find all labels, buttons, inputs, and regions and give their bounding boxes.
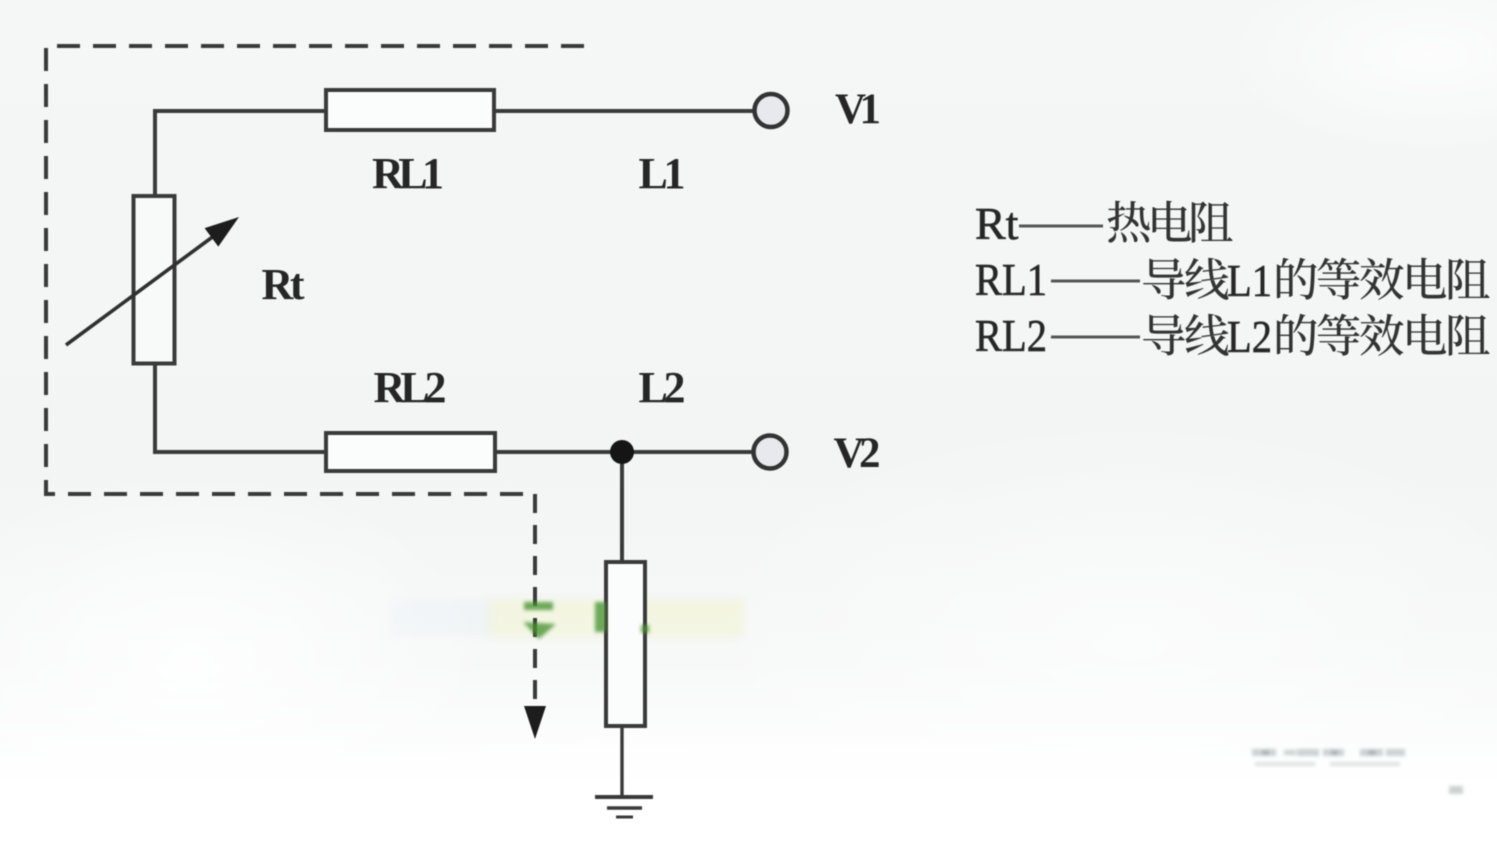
legend row 3: RL2 - wire L2 equivalent resistance — [975, 310, 1490, 362]
thermistor arrow head — [205, 217, 239, 247]
thermistor arrow shaft — [66, 227, 226, 345]
terminal V1 — [755, 94, 788, 127]
svg-text:RL2: RL2 — [975, 310, 1047, 361]
thermistor Rt body — [134, 196, 175, 364]
green annotation marks — [523, 602, 649, 639]
resistor RL1 — [326, 90, 494, 130]
dashed sensor enclosure box — [46, 46, 584, 494]
svg-text:L1: L1 — [1227, 255, 1272, 306]
svg-text:L1: L1 — [639, 149, 686, 198]
highlighter band annotation — [488, 599, 744, 637]
svg-text:Rt: Rt — [975, 198, 1019, 249]
dashed arrow line down — [533, 494, 537, 708]
wire RL1 to V1 — [494, 109, 754, 113]
wire resistor to ground — [620, 726, 623, 797]
wire to RL2 — [153, 450, 326, 454]
svg-text:L2: L2 — [1227, 311, 1272, 362]
wire top-left corner to RL1 — [155, 111, 326, 194]
legend row 2: RL1 - wire L1 equivalent resistance — [975, 254, 1490, 306]
legend row 1: Rt - thermistor — [975, 198, 1233, 249]
wire Rt bottom — [153, 364, 157, 452]
dashed arrow head — [524, 706, 546, 739]
svg-text:L2: L2 — [639, 363, 686, 412]
faint watermark remnants — [1252, 749, 1463, 794]
svg-text:Rt: Rt — [262, 260, 305, 309]
terminal V2 — [754, 436, 787, 469]
ground — [595, 797, 653, 817]
resistor below junction — [606, 562, 645, 726]
svg-text:RL2: RL2 — [374, 363, 447, 412]
wire RL2 to junction to V2 — [495, 450, 753, 454]
svg-text:V2: V2 — [834, 430, 881, 477]
junction node — [610, 440, 634, 464]
svg-text:V1: V1 — [835, 86, 881, 133]
wire junction down to resistor — [620, 452, 624, 562]
svg-text:RL1: RL1 — [372, 149, 444, 198]
svg-text:RL1: RL1 — [975, 254, 1047, 305]
resistor RL2 — [326, 433, 495, 471]
